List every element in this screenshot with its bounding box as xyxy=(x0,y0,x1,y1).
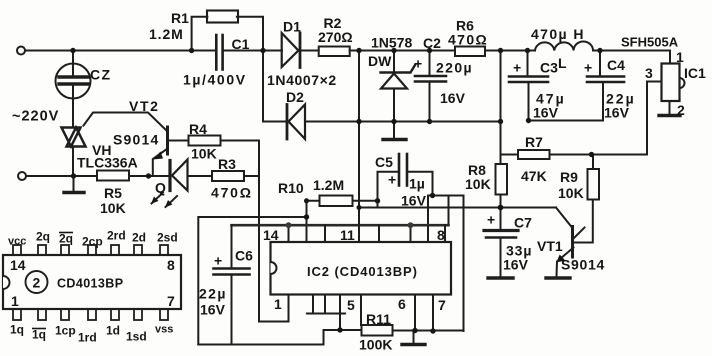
CD4013 top pin boxes xyxy=(13,245,21,255)
svg-text:VT1: VT1 xyxy=(537,238,563,254)
capacitor C7 xyxy=(500,208,502,230)
wire bus y225 xyxy=(232,224,449,227)
svg-text:14: 14 xyxy=(10,257,26,273)
svg-text:VT2: VT2 xyxy=(129,98,159,114)
wire C1 to D1 xyxy=(224,50,282,52)
svg-text:10K: 10K xyxy=(100,200,126,216)
VT1 base lead diagonal xyxy=(556,208,572,228)
svg-text:2q: 2q xyxy=(36,230,50,244)
node dot y217 xyxy=(304,214,309,219)
wire R11 right xyxy=(393,330,464,332)
wire y217 to R10 node xyxy=(198,217,306,345)
node dots ground rail xyxy=(356,119,361,124)
resistor R7 xyxy=(518,150,550,159)
svg-text:1q: 1q xyxy=(10,323,24,337)
wire R2 to R6 xyxy=(350,50,455,52)
svg-text:1: 1 xyxy=(11,293,19,309)
IC2 pin11 stub xyxy=(358,208,360,243)
wire R6 to L xyxy=(485,50,535,52)
svg-text:470µ H: 470µ H xyxy=(531,26,585,42)
wire y195 jog xyxy=(428,195,464,197)
node dots bus y225 xyxy=(286,222,292,228)
op-to IC1 box xyxy=(662,64,680,102)
svg-text:2: 2 xyxy=(677,102,685,118)
svg-text:C2: C2 xyxy=(423,35,441,51)
svg-text:SFH505A: SFH505A xyxy=(621,35,679,50)
capacitor C6 xyxy=(231,225,233,267)
svg-text:2cp: 2cp xyxy=(82,235,103,249)
svg-text:+: + xyxy=(584,60,592,76)
svg-text:8: 8 xyxy=(437,227,445,243)
overline 2qbar xyxy=(59,232,73,234)
ground VT1 xyxy=(546,276,570,279)
capacitor CZ xyxy=(56,64,91,99)
svg-text:C4: C4 xyxy=(607,57,625,73)
wire R5 to LED xyxy=(129,175,169,177)
svg-text:C1: C1 xyxy=(232,36,250,52)
node dot R8 C7 VT1 xyxy=(498,205,504,211)
svg-text:5: 5 xyxy=(347,297,355,313)
terminal input top xyxy=(17,47,25,55)
VT2 emitter xyxy=(153,149,168,177)
svg-text:11: 11 xyxy=(340,227,355,243)
IC2 pin12 stub xyxy=(324,225,326,242)
VT2 emitter arrowhead xyxy=(153,152,163,160)
inductor L 470uH xyxy=(535,41,593,50)
IC2 notch xyxy=(271,262,277,274)
resistor R4 xyxy=(189,136,221,146)
capacitor C3 xyxy=(527,51,529,76)
svg-text:47K: 47K xyxy=(521,168,547,184)
node dots bottom rail xyxy=(71,173,76,178)
VT2 base lead xyxy=(169,140,189,142)
wire C5 right loop xyxy=(407,172,433,196)
svg-text:+: + xyxy=(414,56,422,72)
svg-text:~220V: ~220V xyxy=(12,109,59,125)
IC1 pin 2 stub xyxy=(669,101,671,114)
svg-text:10K: 10K xyxy=(465,176,491,192)
svg-text:C6: C6 xyxy=(235,248,253,264)
svg-text:R3: R3 xyxy=(218,156,236,172)
overline 1qbar xyxy=(32,328,46,330)
diode D2 xyxy=(289,105,306,140)
capacitor C5 xyxy=(398,154,401,186)
svg-text:1.2M: 1.2M xyxy=(313,177,344,193)
CD4013 bottom pin boxes xyxy=(13,309,21,320)
wire bus riser x448 xyxy=(448,196,450,226)
wire R9 top stub xyxy=(592,155,594,170)
svg-text:1cp: 1cp xyxy=(55,324,76,338)
svg-text:1rd: 1rd xyxy=(78,331,97,345)
node dot R10 left corner xyxy=(304,198,309,203)
svg-text:S9014: S9014 xyxy=(113,132,159,148)
wire base rail y207 xyxy=(359,207,556,209)
svg-text:1.2M: 1.2M xyxy=(149,26,184,42)
node dots R11 rail xyxy=(337,327,342,332)
VT1 emitter xyxy=(557,248,574,277)
IC2 pin7 stub xyxy=(432,295,434,332)
CD4013 circled 2 xyxy=(26,271,48,293)
IC1 pin 3 wire xyxy=(647,82,662,155)
VT1 emitter arrowhead xyxy=(556,255,565,263)
wire bottom rail y344 xyxy=(198,330,323,345)
wire C5 left loop xyxy=(378,172,400,208)
wire D1 to R2 xyxy=(302,50,319,52)
capacitor C2 xyxy=(429,51,431,75)
svg-text:14: 14 xyxy=(263,227,279,243)
svg-text:R11: R11 xyxy=(366,311,391,327)
svg-text:CD4013BP: CD4013BP xyxy=(57,277,123,291)
resistor R9 xyxy=(588,169,600,200)
wire R1 right lead xyxy=(237,17,263,51)
wire outer right vertical x463 xyxy=(463,196,465,332)
resistor R10 xyxy=(320,196,353,207)
svg-text:+: + xyxy=(388,172,396,188)
node dots top rail xyxy=(70,48,75,53)
svg-text:470Ω: 470Ω xyxy=(448,32,488,48)
transistor VT1 base bar xyxy=(571,227,574,258)
svg-text:22µ: 22µ xyxy=(199,286,227,302)
svg-text:1q: 1q xyxy=(32,328,46,342)
zener DW xyxy=(393,51,395,73)
svg-text:vcc: vcc xyxy=(8,236,26,248)
resistor R5 xyxy=(97,171,129,181)
ground rail y121 xyxy=(359,121,501,123)
svg-text:R4: R4 xyxy=(189,121,207,137)
ground IC1 pin2 xyxy=(659,114,680,117)
svg-text:270Ω: 270Ω xyxy=(318,29,353,45)
svg-text:16V: 16V xyxy=(533,105,559,121)
ground C7 xyxy=(488,276,513,279)
node dot R7 R9 xyxy=(589,152,594,157)
svg-text:1: 1 xyxy=(676,49,684,65)
svg-text:C3: C3 xyxy=(540,60,558,76)
svg-text:IC1: IC1 xyxy=(684,65,706,81)
LED arrows xyxy=(152,193,164,204)
svg-text:16V: 16V xyxy=(604,105,630,121)
svg-text:C5: C5 xyxy=(375,154,393,170)
wire R4 to vertical x259 xyxy=(221,141,260,322)
svg-text:2sd: 2sd xyxy=(157,231,178,245)
IC2 box xyxy=(271,242,452,295)
node dot R10 right xyxy=(375,198,380,203)
svg-text:+: + xyxy=(487,212,495,228)
svg-text:8: 8 xyxy=(167,257,175,273)
svg-text:L: L xyxy=(558,55,567,71)
wire R1 left lead xyxy=(192,17,208,51)
IC2 pin8 stub xyxy=(444,225,446,242)
capacitor C4 xyxy=(599,51,601,76)
IC2 pin6 stub xyxy=(414,295,416,331)
svg-text:1d: 1d xyxy=(106,324,120,338)
wire R3 right xyxy=(244,175,259,177)
svg-text:R5: R5 xyxy=(104,185,122,201)
svg-text:R9: R9 xyxy=(560,169,578,185)
IC2 pin1 loop xyxy=(259,295,289,322)
IC2 pin2-3 bridge xyxy=(307,313,345,315)
LED Q xyxy=(168,161,171,191)
IC2 pin10 stub xyxy=(378,225,380,242)
svg-text:10K: 10K xyxy=(191,146,217,162)
svg-text:100K: 100K xyxy=(359,337,392,353)
svg-text:1sd: 1sd xyxy=(126,330,147,344)
wire vertical node359 xyxy=(358,51,360,208)
resistor R3 xyxy=(212,171,244,181)
terminal input bottom xyxy=(18,172,26,180)
IC1 dome xyxy=(680,78,685,88)
svg-text:2q: 2q xyxy=(59,232,73,246)
wire C3 C4 bottom rail xyxy=(529,120,604,122)
wire R10 left lead xyxy=(307,201,320,242)
svg-text:470Ω: 470Ω xyxy=(211,185,253,201)
svg-text:16V: 16V xyxy=(503,257,529,273)
svg-text:+: + xyxy=(513,60,521,76)
IC2 pin4 stub xyxy=(339,295,341,331)
svg-text:1µ: 1µ xyxy=(409,176,425,192)
svg-text:1: 1 xyxy=(274,296,282,312)
ground below DW xyxy=(383,138,406,141)
transistor VT2 base bar xyxy=(166,127,169,154)
svg-text:2d: 2d xyxy=(132,231,146,245)
wire bottom rail xyxy=(27,175,98,177)
resistor R8 xyxy=(496,164,508,195)
capacitor C1 xyxy=(215,35,218,70)
wire R8 bottom stub xyxy=(500,195,502,208)
svg-text:TLC336A: TLC336A xyxy=(77,155,138,171)
svg-text:IC2 (CD4013BP): IC2 (CD4013BP) xyxy=(307,264,418,279)
node dot x359 y207 xyxy=(357,205,362,210)
LED arrowhead 1 xyxy=(151,197,159,204)
resistor R1 xyxy=(207,11,238,23)
svg-text:C7: C7 xyxy=(514,215,532,231)
svg-text:220µ: 220µ xyxy=(436,60,473,76)
IC2 pin14 stub xyxy=(288,225,290,242)
svg-text:R7: R7 xyxy=(525,134,543,150)
svg-text:R10: R10 xyxy=(278,180,304,196)
wire R11 left xyxy=(324,329,362,331)
svg-text:10K: 10K xyxy=(558,185,584,201)
CD4013 package body xyxy=(3,255,181,309)
wire R7 left lead xyxy=(501,154,519,156)
wire R10 right lead xyxy=(353,200,378,202)
VT1 collector xyxy=(574,228,585,239)
wire node500 vertical to R8 xyxy=(500,51,502,165)
svg-text:Q: Q xyxy=(155,180,166,196)
svg-text:16V: 16V xyxy=(440,90,466,106)
svg-text:1µ/400V: 1µ/400V xyxy=(183,72,247,88)
svg-text:2rd: 2rd xyxy=(107,229,126,243)
svg-text:1N578: 1N578 xyxy=(371,35,412,51)
svg-text:CZ: CZ xyxy=(90,67,111,83)
LED arrowhead 2 xyxy=(165,200,173,207)
IC2 pin5 stub xyxy=(360,295,362,326)
resistor R2 xyxy=(319,47,350,57)
resistor R11 xyxy=(362,325,393,336)
wire D2 to node359 xyxy=(306,121,360,123)
CD4013 notch xyxy=(3,276,10,289)
svg-text:3: 3 xyxy=(645,65,653,81)
svg-text:+: + xyxy=(214,253,222,269)
ground left xyxy=(73,176,75,191)
wire triac to bottom rail xyxy=(72,147,74,176)
IC2 pin9 stub xyxy=(410,225,412,242)
svg-text:1N4007×2: 1N4007×2 xyxy=(267,72,337,88)
svg-text:2: 2 xyxy=(33,275,41,291)
IC2 pin3 stub xyxy=(324,295,326,314)
wire top rail left xyxy=(26,50,216,52)
ground R11 xyxy=(413,331,415,344)
svg-text:7: 7 xyxy=(438,297,446,313)
diode D1 xyxy=(282,33,299,67)
svg-text:16V: 16V xyxy=(200,302,226,318)
wire L to IC1 pin1 xyxy=(593,51,670,64)
VT2 collector wire to triac gate xyxy=(84,113,168,132)
svg-text:R1: R1 xyxy=(171,10,189,26)
svg-text:16V: 16V xyxy=(401,193,427,209)
svg-text:DW: DW xyxy=(368,53,392,69)
node dot C5 right xyxy=(430,193,435,198)
svg-text:6: 6 xyxy=(398,296,406,312)
triac VH xyxy=(62,128,81,147)
wire R7 right to IC1 pin3 xyxy=(550,154,648,156)
resistor R6 xyxy=(455,47,485,57)
svg-text:vss: vss xyxy=(155,324,173,336)
wire stub pin9 x428 xyxy=(427,196,429,243)
svg-text:D1: D1 xyxy=(283,19,301,35)
wire node262 down to D2 xyxy=(263,51,286,122)
svg-text:D2: D2 xyxy=(286,89,304,105)
IC2 pin2 stub xyxy=(312,295,314,314)
svg-text:S9014: S9014 xyxy=(561,257,605,273)
svg-text:7: 7 xyxy=(167,293,175,309)
